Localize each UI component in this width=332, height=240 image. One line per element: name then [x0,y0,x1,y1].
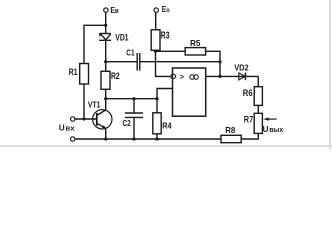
svg-text:C2: C2 [123,118,131,128]
wire Ek down to VD1 [105,12,107,33]
svg-text:VT1: VT1 [88,99,101,109]
svg-text:R1: R1 [69,67,78,78]
terminal Uvx bottom [71,137,75,141]
resistor R7 [254,113,262,133]
resistor R3 [151,30,160,51]
wire emitter down [105,128,107,139]
terminal Eo [154,8,158,12]
wire R3 to inverting lead [156,50,171,76]
wire mid rail y98.7 [106,98,157,100]
wire Eo to R3 [155,12,157,30]
terminal Ek [104,8,108,12]
svg-text:C1: C1 [126,47,135,57]
wire R5 row [156,50,186,52]
wire base lead [75,118,97,120]
node: C2 bottom rail [132,137,135,140]
wire left branch top [84,25,106,63]
svg-text:VD2: VD2 [234,63,249,73]
node: C2 top [132,97,135,100]
wire R4 bottom [156,134,158,139]
resistor R8 [221,135,241,142]
svg-text:o: o [166,7,170,14]
op-amp infinity symbol [190,75,199,80]
junction dots [82,24,221,141]
wire R5 right + riser to output [206,51,220,76]
node: VD1/C1/R2 [104,60,107,63]
wire bottom rail left [75,138,221,140]
capacitor C1 [137,53,140,71]
svg-text:R5: R5 [190,38,201,48]
svg-text:VD1: VD1 [115,32,128,42]
wire VD1 to R2 [105,40,107,71]
wire R6 to R7 [257,105,259,113]
svg-text:U: U [263,125,269,134]
svg-text:вх: вх [65,126,74,133]
wire C1 row left [106,61,137,63]
svg-text:R7: R7 [244,114,253,124]
node: output [218,75,221,78]
node: R4 bottom rail [155,137,158,140]
svg-text:U: U [59,124,65,133]
svg-text:R3: R3 [161,30,170,41]
op-amp input circle [171,74,176,79]
wire R2 to collector node [105,89,107,98]
wire R7 bottom to R8 [241,133,258,139]
resistor R6 [254,87,262,106]
svg-text:R4: R4 [162,120,172,130]
wire collector up [105,99,107,111]
resistor R5 [185,48,205,55]
node: non-inv/R4 [155,97,158,100]
wire output row [206,75,259,77]
svg-text:>: > [180,73,184,82]
resistor R4 [153,113,161,134]
transistor VT1 [93,110,112,129]
page edge right [329,0,331,149]
resistor R1 [80,64,89,85]
op-amp U1 box [173,68,206,116]
node: base/R1 [82,117,85,120]
capacitor C2 [125,99,143,139]
zener diode VD1 [99,34,111,41]
wiper arrow of R7 [263,117,276,120]
svg-text:R2: R2 [111,71,120,82]
svg-text:R6: R6 [243,88,253,98]
wire C1 to riser x220 [140,61,220,63]
svg-text:R8: R8 [225,125,235,135]
diode VD2 [239,73,246,81]
wire VD2 to R6 [257,76,259,86]
node: collector/R2 [104,97,107,100]
wire R4 top riser / non-inv lead [157,89,173,113]
node: R3/R5/inv [154,50,157,53]
node: Ek/R1 [104,24,107,27]
page edge bottom [0,145,332,147]
svg-text:вых: вых [269,127,283,134]
node: emitter rail [104,137,107,140]
terminal Uvx top [71,117,75,121]
svg-text:к: к [115,8,119,15]
node: C1/R5 riser [218,60,221,63]
resistor R2 [101,71,110,89]
wire R1 to base node [83,84,85,119]
